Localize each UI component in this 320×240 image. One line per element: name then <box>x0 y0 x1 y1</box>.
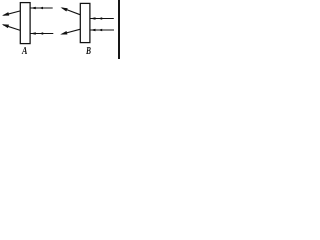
arrowhead at plate B top incoming ray <box>90 17 95 20</box>
plate A <box>20 3 30 44</box>
wire: incoming ray bottom right of B <box>90 29 114 31</box>
arrowhead at plate B bottom incoming ray <box>90 29 95 32</box>
mid arrowhead bottom incoming ray B <box>98 29 102 31</box>
wire: outgoing ray upper left of B <box>62 8 80 15</box>
mid arrowhead top incoming ray A <box>39 7 43 9</box>
arrowhead outgoing upper-left ray A <box>2 12 9 16</box>
svg-text:B: B <box>85 46 91 57</box>
wire: outgoing ray upper left of A <box>4 11 21 15</box>
mid arrowhead bottom incoming ray A <box>39 32 43 34</box>
arrowhead outgoing upper-left ray B <box>61 7 68 11</box>
background <box>0 0 120 59</box>
wire: outgoing ray lower left of A <box>3 25 20 31</box>
wire: incoming ray bottom right of A <box>30 33 53 35</box>
wire: incoming ray top right of B <box>90 18 114 20</box>
svg-text:A: A <box>21 46 27 57</box>
arrowhead at plate A top incoming ray <box>30 7 36 10</box>
wire: outgoing ray lower left of B <box>62 29 81 34</box>
mid arrowhead top incoming ray B <box>98 17 102 19</box>
wire: incoming ray top right of A <box>30 7 52 9</box>
arrowhead outgoing lower-left ray A <box>2 24 9 28</box>
plate B <box>80 3 90 42</box>
arrowhead outgoing lower-left ray B <box>60 31 67 35</box>
arrowhead at plate A bottom incoming ray <box>30 32 36 35</box>
border bar at right edge <box>118 0 120 59</box>
